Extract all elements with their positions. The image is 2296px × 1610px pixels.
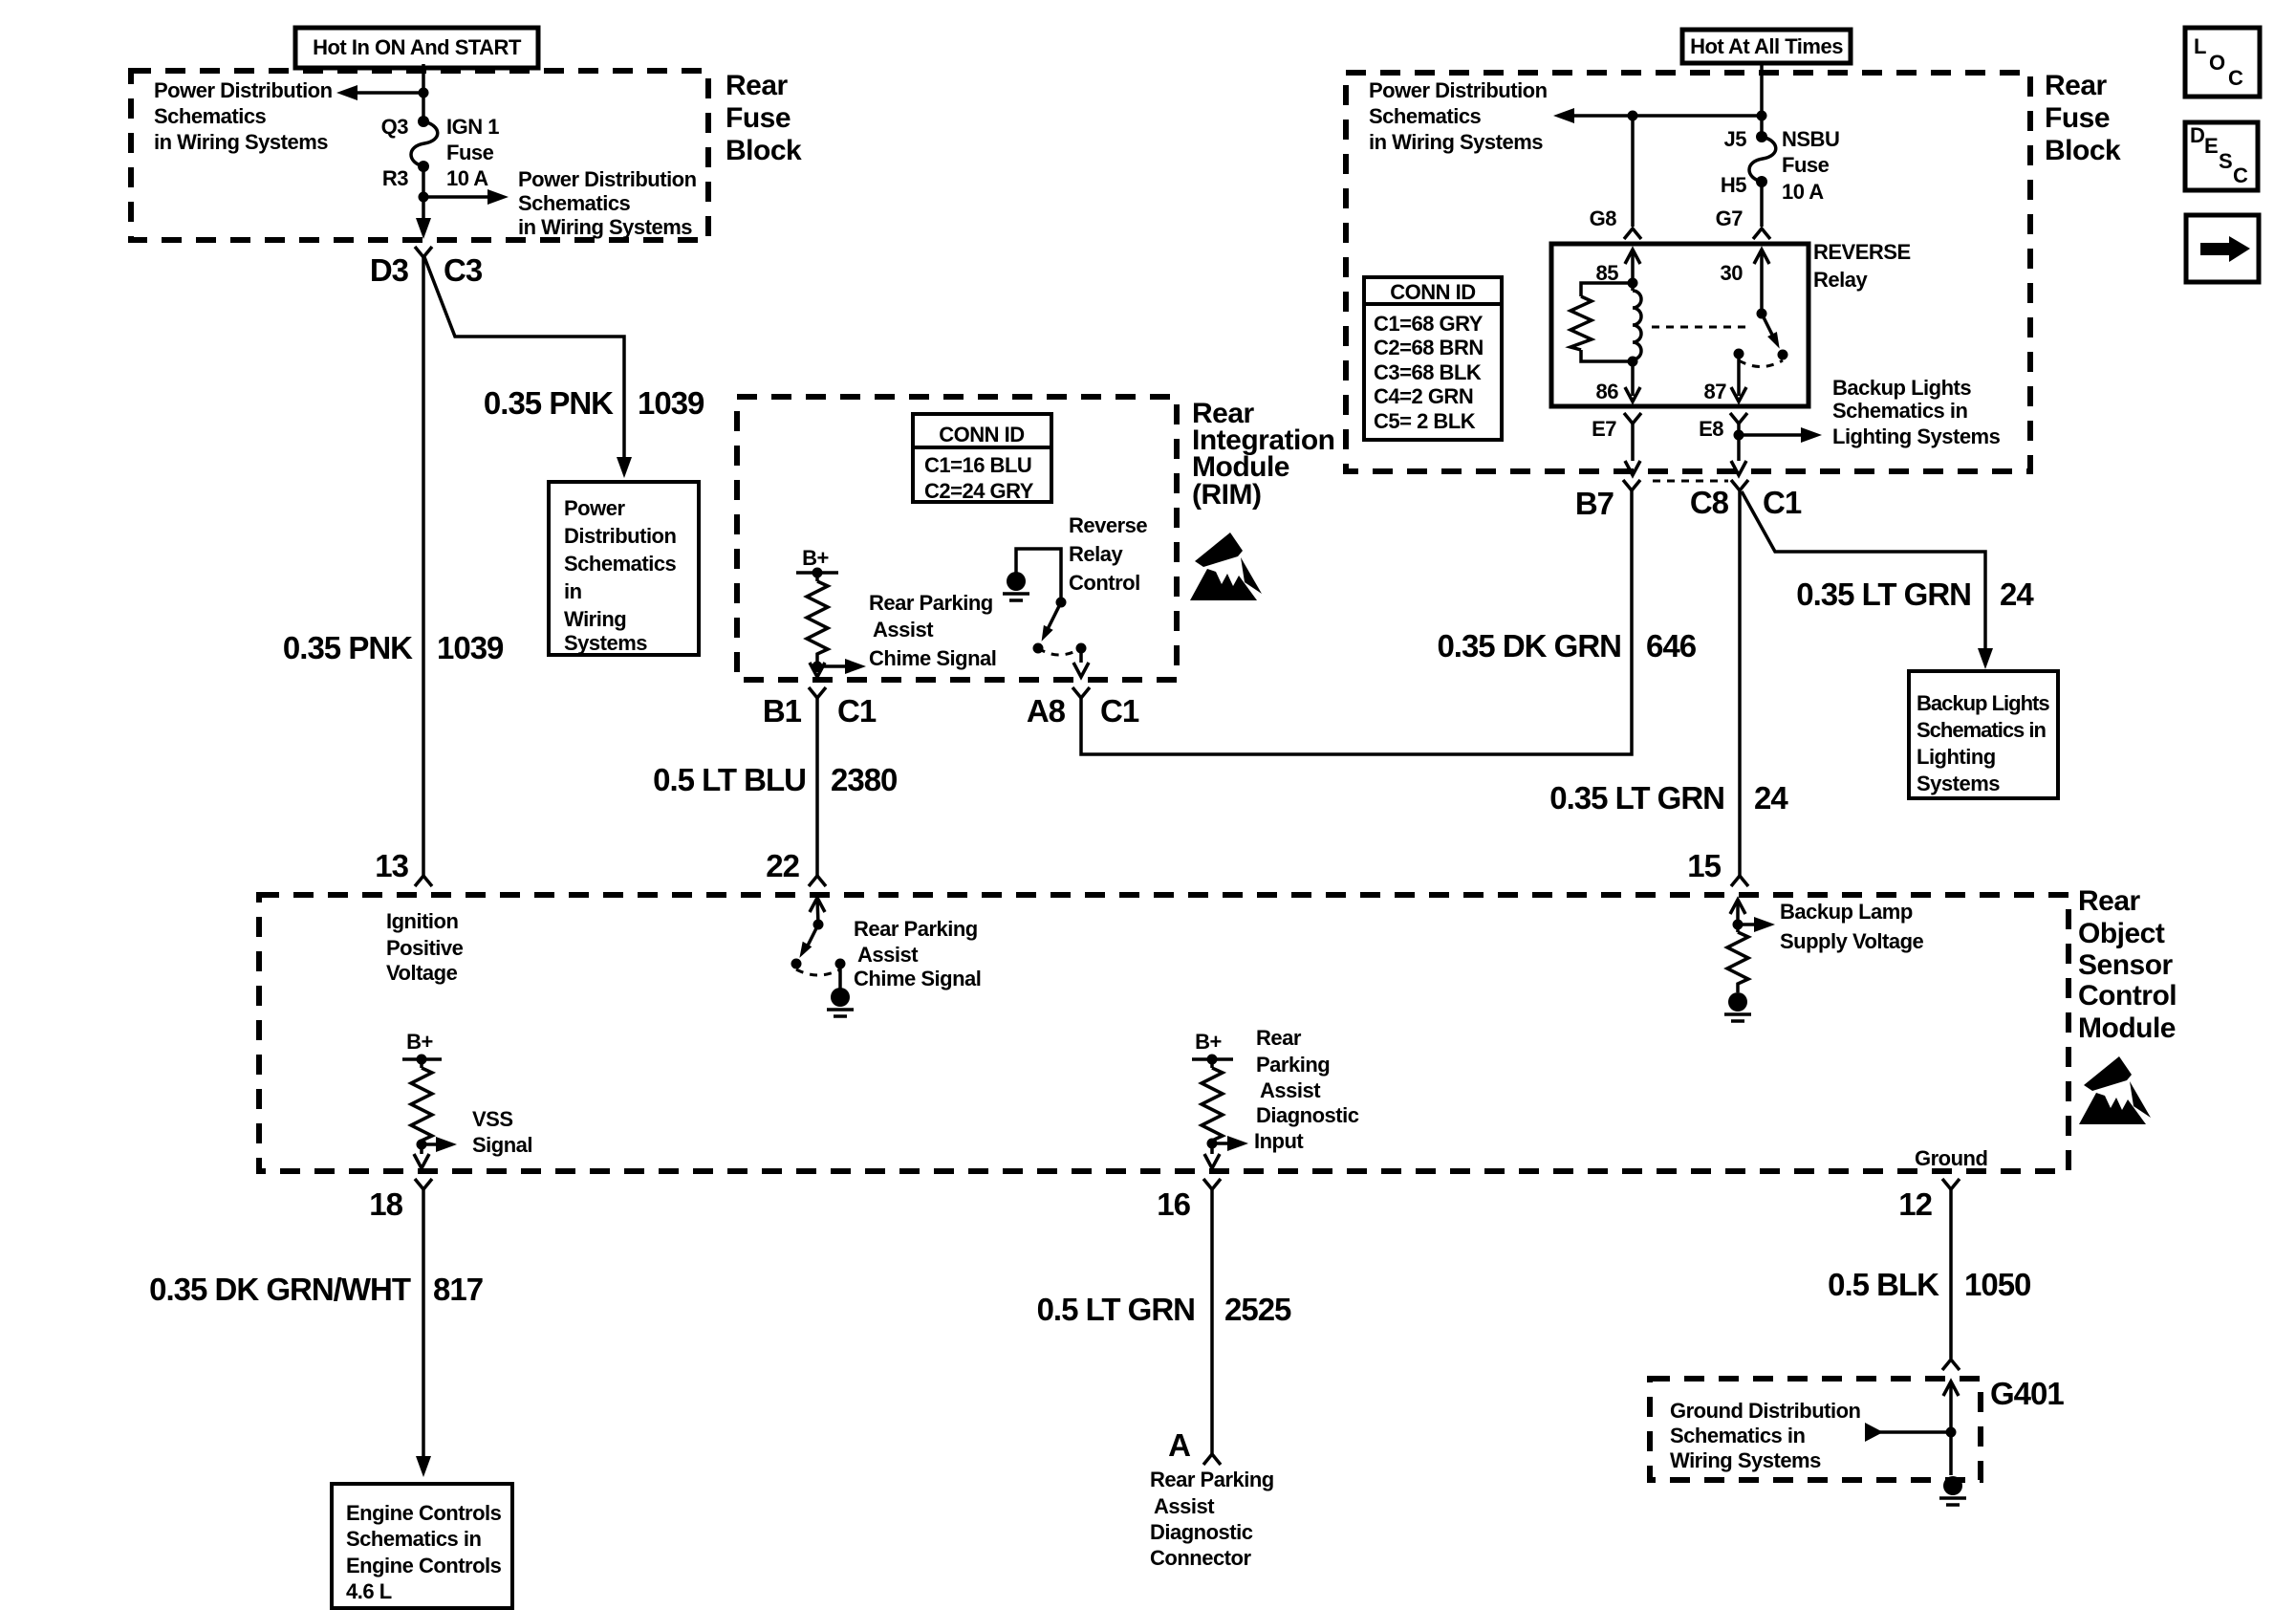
arrow down to pin 18 — [414, 1144, 429, 1168]
svg-text:C2=24 GRY: C2=24 GRY — [924, 479, 1034, 503]
svg-text:Schematics: Schematics — [564, 552, 677, 576]
svg-text:O: O — [2209, 51, 2225, 75]
note: Backup Lights Schematics in Lighting Systems — [1832, 376, 2001, 448]
svg-text:1050: 1050 — [1964, 1267, 2030, 1302]
label Rear Fuse Block (right) — [2045, 70, 2121, 166]
label REVERSE Relay — [1813, 240, 1911, 292]
wire down to B1 — [810, 663, 825, 677]
arrow down to pin 16 — [1204, 1143, 1220, 1168]
ground G401 — [1939, 1476, 1966, 1505]
connector G8 — [1624, 228, 1641, 239]
Rear Object Sensor Control Module dashed box — [259, 895, 2069, 1171]
svg-text:B1: B1 — [763, 693, 802, 729]
svg-text:E7: E7 — [1592, 417, 1616, 441]
svg-text:VSS: VSS — [472, 1107, 513, 1131]
header box "Hot At All Times" — [1682, 30, 1851, 63]
wire pin 16 down (0.5 LT GRN 2525) — [1210, 1189, 1214, 1454]
svg-text:C1: C1 — [837, 693, 877, 729]
svg-text:24: 24 — [2000, 577, 2034, 612]
arrow right Diagnostic Input — [1212, 1136, 1248, 1151]
svg-text:Hot In ON And START: Hot In ON And START — [313, 35, 522, 59]
label 0.5 LT GRN 2525 — [1037, 1292, 1291, 1327]
svg-text:0.35 LT GRN: 0.35 LT GRN — [1549, 780, 1724, 816]
svg-text:15: 15 — [1687, 848, 1721, 883]
resistor (backup lamp load) — [1727, 932, 1748, 992]
arrow down into Power Distribution ref box — [617, 457, 632, 478]
label 0.35 PNK 1039 (branch) — [484, 385, 704, 421]
svg-text:A8: A8 — [1027, 693, 1066, 729]
forward arrow box — [2186, 215, 2259, 282]
svg-text:Block: Block — [726, 135, 802, 166]
wire from Hot In ON And START down through fuse — [422, 64, 425, 121]
svg-text:G8: G8 — [1590, 207, 1617, 230]
svg-text:in Wiring Systems: in Wiring Systems — [518, 215, 692, 239]
svg-text:C3: C3 — [444, 252, 483, 288]
svg-text:Control: Control — [2078, 980, 2177, 1012]
svg-text:Schematics in: Schematics in — [346, 1527, 482, 1551]
svg-text:S: S — [2219, 149, 2232, 173]
ground (chime signal) — [827, 964, 854, 1016]
svg-text:Lighting Systems: Lighting Systems — [1832, 424, 2001, 448]
svg-text:Voltage: Voltage — [386, 961, 458, 985]
connector G7 — [1753, 228, 1770, 239]
arrow up inside G401 — [1943, 1382, 1959, 1475]
relay REVERSE: coil box — [1551, 244, 1809, 406]
svg-text:Module: Module — [2078, 1012, 2176, 1044]
svg-text:0.5 LT GRN: 0.5 LT GRN — [1037, 1292, 1195, 1327]
connector B7 — [1623, 480, 1640, 490]
svg-text:Parking: Parking — [1256, 1053, 1330, 1077]
svg-text:IGN 1: IGN 1 — [446, 115, 499, 139]
label Backup Lamp Supply Voltage — [1780, 900, 1924, 953]
svg-text:Control: Control — [1069, 571, 1140, 595]
svg-text:Ignition: Ignition — [386, 909, 458, 933]
fuse IGN 1 10A — [411, 116, 438, 172]
svg-text:1039: 1039 — [638, 385, 704, 421]
wire C8 down to pin 15 (0.35 LT GRN 24) — [1738, 490, 1742, 876]
label Rear Parking Assist Diagnostic Connector — [1150, 1468, 1274, 1570]
svg-text:Diagnostic: Diagnostic — [1150, 1520, 1253, 1544]
svg-text:Rear Parking: Rear Parking — [869, 591, 993, 615]
svg-text:Fuse: Fuse — [2045, 102, 2110, 134]
ground (backup lamp) — [1724, 992, 1751, 1021]
svg-text:0.35 LT GRN: 0.35 LT GRN — [1796, 577, 1971, 612]
arrow into Backup Lights ref box — [1978, 648, 1993, 669]
B+ supply (RIM chime pull-up) — [796, 546, 838, 581]
Rear Fuse Block (right) dashed box — [1346, 73, 2030, 471]
label 0.35 LT GRN 24 (branch) — [1796, 577, 2034, 612]
dashed actuation link — [1652, 326, 1749, 329]
svg-text:G401: G401 — [1990, 1376, 2064, 1411]
node E8 branch — [1731, 424, 1746, 475]
connector pin 18 — [415, 1179, 432, 1189]
svg-text:Schematics: Schematics — [1369, 104, 1482, 128]
label Reverse Relay Control — [1069, 513, 1147, 595]
svg-text:Q3: Q3 — [381, 115, 409, 139]
connector at G401 — [1942, 1360, 1960, 1370]
svg-text:Ground: Ground — [1915, 1146, 1987, 1170]
svg-text:C3=68 BLK: C3=68 BLK — [1374, 360, 1482, 384]
svg-text:2525: 2525 — [1224, 1292, 1291, 1327]
node backup lamp — [1733, 920, 1744, 930]
wire below NSBU fuse to G7 — [1760, 182, 1764, 227]
svg-text:C1=68 GRY: C1=68 GRY — [1374, 312, 1484, 336]
svg-text:B+: B+ — [1195, 1030, 1222, 1054]
svg-text:Schematics in: Schematics in — [1917, 718, 2047, 742]
svg-text:0.35 DK GRN/WHT: 0.35 DK GRN/WHT — [149, 1272, 411, 1307]
wire arrow left to Power Distribution note — [336, 85, 423, 100]
svg-text:Positive: Positive — [386, 936, 464, 960]
label 0.5 BLK 1050 — [1828, 1267, 2030, 1302]
svg-text:Power Distribution: Power Distribution — [518, 167, 697, 191]
node chime signal — [812, 662, 823, 672]
svg-text:Input: Input — [1254, 1129, 1304, 1153]
label Rear Parking Assist Chime Signal (RIM) — [869, 591, 996, 670]
wire D3 down to pin 13 (0.35 PNK 1039) — [422, 257, 425, 876]
svg-text:Reverse: Reverse — [1069, 513, 1147, 537]
svg-text:30: 30 — [1721, 261, 1744, 285]
label Ignition Positive Voltage — [386, 909, 464, 985]
connector pin 13 — [415, 876, 432, 886]
svg-text:Systems: Systems — [1917, 772, 2000, 795]
switch Reverse Relay Control — [1033, 598, 1087, 656]
svg-text:B7: B7 — [1575, 486, 1614, 521]
arrow right Chime Signal — [817, 659, 866, 674]
resistor (diagnostic pull-up) — [1202, 1068, 1223, 1143]
svg-text:Lighting: Lighting — [1917, 745, 1996, 769]
svg-text:Wiring Systems: Wiring Systems — [1670, 1448, 1821, 1472]
svg-text:Chime Signal: Chime Signal — [854, 967, 981, 990]
svg-text:Relay: Relay — [1813, 268, 1868, 292]
resistor (VSS pull-up) — [411, 1068, 432, 1144]
svg-text:C1=16 BLU: C1=16 BLU — [924, 453, 1031, 477]
svg-text:10 A: 10 A — [1782, 180, 1824, 204]
svg-text:Rear: Rear — [726, 70, 789, 101]
wire G8 branch down — [1631, 116, 1635, 227]
svg-text:2380: 2380 — [831, 762, 897, 797]
svg-text:E8: E8 — [1699, 417, 1723, 441]
svg-text:C: C — [2228, 66, 2243, 90]
svg-text:1039: 1039 — [437, 630, 504, 665]
svg-text:Engine Controls: Engine Controls — [346, 1554, 502, 1577]
svg-text:0.5 BLK: 0.5 BLK — [1828, 1267, 1939, 1302]
connector B1/C1 — [809, 687, 826, 698]
DESC box — [2185, 122, 2258, 190]
svg-text:Chime Signal: Chime Signal — [869, 646, 996, 670]
node G8 branch — [1628, 111, 1638, 121]
connector C8/C1 — [1731, 480, 1748, 490]
label Rear Parking Assist Diagnostic Input — [1254, 1026, 1359, 1153]
dashed connector link B7-C8 — [1653, 480, 1728, 483]
relay coil K1 with parallel resistor — [1570, 278, 1641, 367]
svg-text:Rear: Rear — [1256, 1026, 1302, 1050]
wire B1 down to pin 22 (0.5 LT BLU 2380) — [815, 698, 819, 876]
header box "Hot In ON And START" — [295, 28, 538, 68]
node below fuse — [419, 192, 429, 203]
svg-text:Diagnostic: Diagnostic — [1256, 1103, 1359, 1127]
arrow into Engine Controls ref box — [416, 1456, 431, 1477]
svg-text:Assist: Assist — [1154, 1494, 1215, 1518]
pin 86 arrow — [1625, 361, 1640, 402]
svg-text:CONN ID: CONN ID — [939, 423, 1024, 446]
Rear Fuse Block (left) dashed box — [131, 71, 708, 240]
connector pin 15 — [1731, 876, 1748, 886]
svg-text:22: 22 — [766, 848, 799, 883]
svg-text:24: 24 — [1754, 780, 1788, 816]
pin 87 arrow — [1731, 354, 1746, 402]
svg-text:13: 13 — [375, 848, 408, 883]
connector pin 22 — [809, 876, 826, 886]
svg-text:Supply Voltage: Supply Voltage — [1780, 929, 1924, 953]
svg-text:Distribution: Distribution — [564, 524, 676, 548]
svg-text:Signal: Signal — [472, 1133, 532, 1157]
svg-text:D3: D3 — [370, 252, 409, 288]
svg-text:86: 86 — [1596, 380, 1619, 403]
note: Ground Distribution Schematics in Wiring Systems — [1670, 1399, 1861, 1472]
label Rear Integration Module (RIM) — [1192, 398, 1335, 511]
B+ supply (diagnostic pull-up) — [1192, 1030, 1233, 1068]
svg-text:10 A: 10 A — [446, 166, 488, 190]
label Rear Parking Assist Chime Signal (ROSCM) — [854, 917, 981, 990]
svg-text:D: D — [2190, 123, 2204, 147]
svg-text:Ground Distribution: Ground Distribution — [1670, 1399, 1861, 1423]
svg-text:Schematics: Schematics — [154, 104, 267, 128]
label 0.35 DK GRN 646 — [1437, 628, 1696, 664]
svg-text:Power Distribution: Power Distribution — [154, 78, 333, 102]
svg-text:16: 16 — [1157, 1186, 1190, 1222]
svg-text:NSBU: NSBU — [1782, 127, 1839, 151]
svg-text:C: C — [2233, 163, 2248, 187]
note: Power Distribution Schematics in Wiring Systems (left box, upper) — [154, 78, 333, 154]
svg-text:B+: B+ — [406, 1030, 433, 1054]
svg-text:Fuse: Fuse — [1782, 153, 1830, 177]
arrow right Backup Lamp — [1738, 917, 1775, 932]
wire C3 branch diagonal to Power Distribution ref — [424, 257, 624, 461]
pin 85 arrow — [1625, 250, 1640, 283]
svg-text:Block: Block — [2045, 135, 2121, 166]
arrow up inside (backup lamp input) — [1730, 900, 1745, 932]
G401 dashed box — [1650, 1379, 1981, 1480]
svg-text:J5: J5 — [1724, 127, 1747, 151]
arrow right to Backup Lights note — [1739, 427, 1822, 443]
svg-text:E: E — [2204, 134, 2218, 158]
label 0.35 PNK 1039 (vertical run) — [283, 630, 504, 665]
svg-text:Power: Power — [564, 496, 625, 520]
switch chime signal — [791, 920, 846, 976]
label VSS Signal — [472, 1107, 532, 1157]
svg-text:0.35 PNK: 0.35 PNK — [283, 630, 413, 665]
svg-text:Sensor: Sensor — [2078, 949, 2174, 981]
svg-text:12: 12 — [1898, 1186, 1932, 1222]
svg-text:Backup Lamp: Backup Lamp — [1780, 900, 1913, 924]
wire from Hot At All Times down — [1760, 63, 1764, 137]
svg-text:Systems: Systems — [564, 631, 647, 655]
ref box: Power Distribution Schematics in Wiring Systems — [549, 482, 699, 655]
svg-text:CONN ID: CONN ID — [1390, 280, 1475, 304]
label Rear Fuse Block (left) — [726, 70, 802, 166]
resistor (RIM chime pull-up) — [807, 581, 828, 666]
svg-text:Fuse: Fuse — [446, 141, 494, 164]
label 0.35 LT GRN 24 (vertical run) — [1549, 780, 1788, 816]
svg-text:C5= 2 BLK: C5= 2 BLK — [1374, 409, 1476, 433]
relay switch arm — [1734, 309, 1788, 367]
svg-text:18: 18 — [369, 1186, 402, 1222]
Rear Integration Module dashed box — [737, 397, 1177, 680]
svg-text:87: 87 — [1704, 380, 1727, 403]
svg-text:Assist: Assist — [857, 943, 919, 967]
svg-text:in Wiring Systems: in Wiring Systems — [1369, 130, 1543, 154]
svg-text:H5: H5 — [1721, 173, 1746, 197]
node VSS signal — [417, 1140, 427, 1150]
svg-text:Fuse: Fuse — [726, 102, 791, 134]
wire branch left with arrow to Power Distribution note — [1553, 108, 1762, 123]
ESD symbol (RIM) — [1190, 533, 1262, 600]
node at feed branch — [1757, 111, 1767, 121]
ref box: Backup Lights Schematics in Lighting Systems — [1909, 671, 2058, 798]
arrow right VSS Signal — [422, 1137, 457, 1152]
svg-text:Connector: Connector — [1150, 1546, 1251, 1570]
svg-text:0.35 PNK: 0.35 PNK — [484, 385, 614, 421]
connector D3/C3 — [415, 247, 432, 257]
svg-text:817: 817 — [433, 1272, 483, 1307]
svg-text:Schematics in: Schematics in — [1670, 1424, 1806, 1447]
svg-text:C4=2 GRN: C4=2 GRN — [1374, 384, 1473, 408]
note: Power Distribution Schematics in Wiring Systems (left box, lower) — [518, 167, 697, 239]
connector E7 — [1624, 413, 1641, 424]
svg-text:in: in — [564, 579, 582, 603]
svg-text:A: A — [1168, 1427, 1190, 1463]
ESD symbol (ROSCM) — [2079, 1056, 2151, 1124]
svg-text:(RIM): (RIM) — [1192, 479, 1261, 511]
svg-text:646: 646 — [1646, 628, 1697, 664]
svg-text:Power Distribution: Power Distribution — [1369, 78, 1548, 102]
wire below fuse — [422, 166, 425, 229]
svg-text:C8: C8 — [1690, 485, 1729, 520]
label IGN 1 Fuse 10 A — [446, 115, 499, 190]
svg-text:Backup Lights: Backup Lights — [1917, 691, 2049, 715]
svg-text:R3: R3 — [382, 166, 408, 190]
arrow into box bottom edge — [416, 218, 431, 239]
svg-text:Hot At All Times: Hot At All Times — [1690, 34, 1843, 58]
connector E8 — [1730, 413, 1747, 424]
svg-text:C2=68 BRN: C2=68 BRN — [1374, 336, 1484, 359]
svg-text:in Wiring Systems: in Wiring Systems — [154, 130, 328, 154]
ground (Reverse Relay Control) — [1003, 549, 1061, 600]
svg-text:Wiring: Wiring — [564, 607, 626, 631]
LOC box — [2185, 28, 2260, 97]
label Rear Object Sensor Control Module — [2078, 885, 2177, 1044]
svg-text:REVERSE: REVERSE — [1813, 240, 1911, 264]
B+ supply (VSS pull-up) — [402, 1030, 442, 1068]
svg-text:L: L — [2194, 34, 2206, 58]
wire E7 down across box edge — [1625, 424, 1640, 475]
svg-text:C1: C1 — [1763, 485, 1802, 520]
node at top of IGN1 branch — [419, 88, 429, 98]
svg-text:Rear Parking: Rear Parking — [1150, 1468, 1274, 1491]
connector A8/C1 — [1072, 687, 1090, 698]
pin 30 arrow — [1754, 250, 1769, 314]
svg-text:Rear: Rear — [2078, 885, 2141, 917]
svg-text:Backup Lights: Backup Lights — [1832, 376, 1971, 400]
connector A — [1203, 1454, 1221, 1465]
ref box: Engine Controls Schematics in Engine Controls 4.6 L — [332, 1484, 512, 1608]
wire A8 to B7 (0.35 DK GRN 646) — [1081, 490, 1632, 754]
label NSBU Fuse 10 A — [1782, 127, 1839, 204]
note: Power Distribution Schematics in Wiring Systems (right box) — [1369, 78, 1548, 154]
svg-text:4.6 L: 4.6 L — [346, 1579, 392, 1603]
wire down to A8 — [1073, 648, 1089, 677]
svg-text:Assist: Assist — [1260, 1078, 1321, 1102]
svg-text:0.5 LT BLU: 0.5 LT BLU — [653, 762, 806, 797]
svg-text:Engine Controls: Engine Controls — [346, 1501, 502, 1525]
svg-text:Schematics: Schematics — [518, 191, 631, 215]
arrow up inside (chime input) — [810, 898, 825, 925]
branch arrow (ground distribution) — [1865, 1423, 1957, 1442]
wire pin 18 down (0.35 DK GRN/WHT 817) — [422, 1189, 425, 1460]
svg-text:Relay: Relay — [1069, 542, 1123, 566]
svg-text:Assist: Assist — [873, 618, 934, 642]
connector pin 16 — [1203, 1179, 1221, 1189]
svg-text:Schematics in: Schematics in — [1832, 399, 1968, 423]
CONN ID table (RIM) — [913, 414, 1051, 503]
svg-text:0.35 DK GRN: 0.35 DK GRN — [1437, 628, 1621, 664]
svg-text:Rear: Rear — [2045, 70, 2108, 101]
wire arrow right to Power Distribution note — [423, 189, 509, 205]
svg-text:G7: G7 — [1716, 207, 1744, 230]
svg-text:Rear Parking: Rear Parking — [854, 917, 978, 941]
CONN ID table (fuse block) — [1364, 277, 1502, 440]
node diagnostic input — [1207, 1139, 1218, 1149]
connector pin 12 — [1942, 1179, 1960, 1189]
fuse NSBU 10A — [1749, 131, 1776, 187]
label 0.35 DK GRN/WHT 817 — [149, 1272, 483, 1307]
wire pin 12 down (0.5 BLK 1050) — [1949, 1189, 1953, 1359]
svg-text:Object: Object — [2078, 918, 2165, 949]
wire C1 branch to Backup Lights ref — [1742, 491, 1985, 652]
label 0.5 LT BLU 2380 — [653, 762, 897, 797]
svg-text:C1: C1 — [1100, 693, 1139, 729]
svg-text:B+: B+ — [802, 546, 829, 570]
